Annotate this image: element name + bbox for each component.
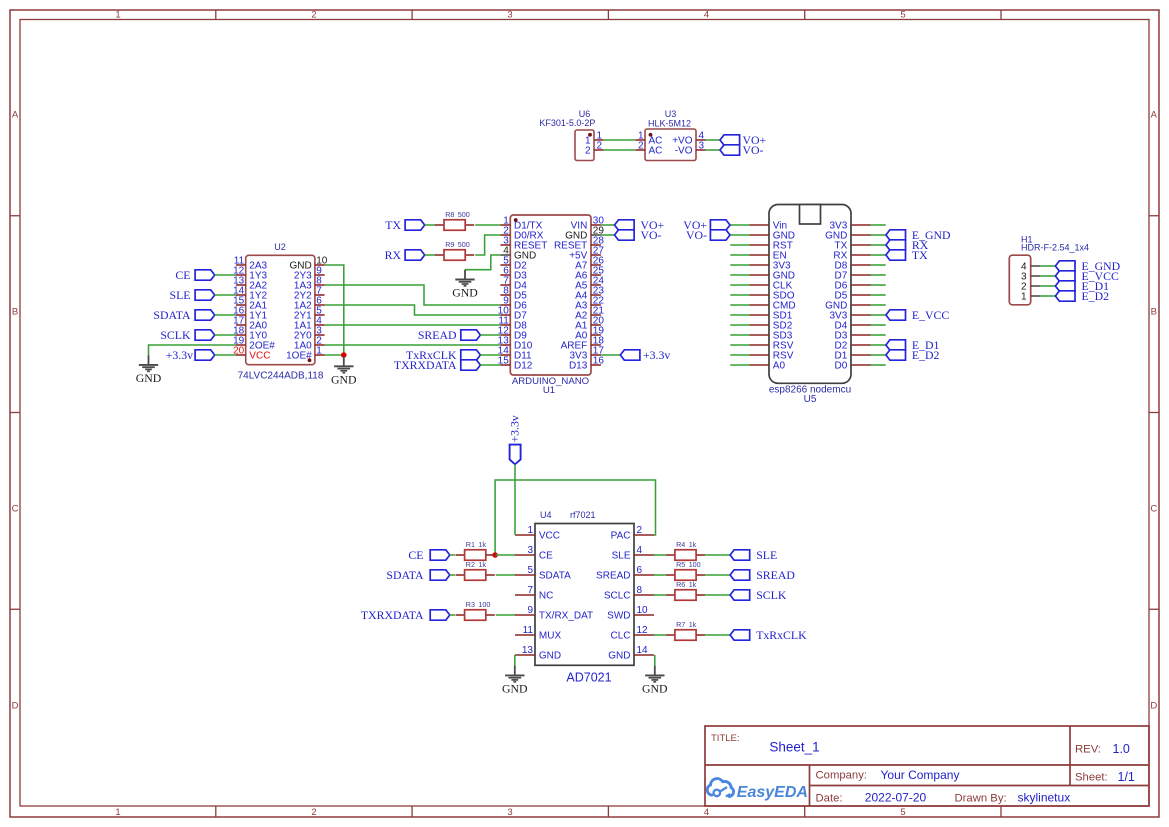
svg-text:D12: D12 [514,361,533,372]
net flag SDATA at U4 [386,568,449,582]
net flag SLE at U4 [730,548,777,562]
svg-text:SCLC: SCLC [604,591,631,602]
net flag SCLK at U4 [730,588,787,602]
svg-text:1k: 1k [478,560,486,569]
wire U4 SREAD pin 6 to R5 [654,574,666,576]
wire R4 to SLE flag [705,554,730,556]
net flag RX [385,248,425,262]
svg-text:D: D [12,700,19,711]
svg-text:Company:: Company: [816,770,868,782]
svg-text:2: 2 [585,146,591,157]
svg-text:Drawn By:: Drawn By: [955,793,1007,805]
svg-text:12: 12 [637,625,649,636]
svg-text:SDATA: SDATA [153,308,191,322]
net flag RX at U5 [886,238,929,252]
svg-text:2: 2 [637,525,643,536]
resistor R2 1k [456,560,495,580]
wire U4 SLE pin 4 to R4 [654,554,666,556]
svg-text:74LVC244ADB,118: 74LVC244ADB,118 [238,371,324,382]
net flag E_D2 at H1 [1055,289,1109,303]
net flag TX at U5 [886,248,928,262]
svg-text:SLE: SLE [756,548,777,562]
wire R7 to TxRxCLK flag [705,634,730,636]
wire SDATA flag to U2 pin 16 [215,314,236,316]
wire U5 TX to RX flag [871,244,886,246]
svg-text:E_VCC: E_VCC [912,308,949,322]
svg-text:R7: R7 [676,620,685,629]
wire SLE flag to U2 pin 14 [215,294,236,296]
svg-text:+3.3v: +3.3v [166,348,193,362]
svg-text:VO-: VO- [686,228,707,242]
wire U5 D2 to E_D1 flag [871,344,886,346]
svg-text:D: D [1150,700,1157,711]
svg-text:PAC: PAC [611,531,631,542]
svg-text:CE: CE [539,551,553,562]
svg-text:2: 2 [311,807,316,818]
wire U2 pin 10 down to ground net [325,265,344,355]
svg-text:TXRXDATA: TXRXDATA [394,358,457,372]
svg-text:R3: R3 [466,600,475,609]
wire R6 to SCLK flag [705,594,730,596]
svg-text:10: 10 [637,605,649,616]
net flag E_D2 at U5 [886,348,940,362]
svg-text:SLE: SLE [612,551,631,562]
wire R3 to U4 pin 9 [496,614,515,616]
ground symbol at U2 pin 19 [136,355,162,385]
module U5 esp8266 nodemcu [750,205,871,406]
net flag CE at U2 [175,268,214,282]
svg-text:1/1: 1/1 [1118,770,1135,784]
net flag SLE at U2 [170,288,215,302]
svg-text:1k: 1k [689,540,697,549]
svg-text:R2: R2 [466,560,475,569]
svg-text:NC: NC [539,591,553,602]
wire U3 -VO to VO- flag [706,149,721,151]
net flag SREAD at U4 [730,568,795,582]
resistor R1 1k [456,540,495,560]
net flag E_VCC at H1 [1055,269,1119,283]
svg-text:13: 13 [522,645,534,656]
net flag +3.3v at U2 [166,348,215,362]
svg-text:3: 3 [507,10,512,21]
svg-text:A: A [12,109,19,120]
net flag +3.3v at U1 [620,348,670,362]
svg-text:2: 2 [311,10,316,21]
wire R1 to U4 pin 3 [496,554,515,556]
wire U3 +VO to VO+ flag [706,139,721,141]
svg-text:1k: 1k [689,620,697,629]
svg-text:E_D2: E_D2 [1082,289,1110,303]
wire TxRxCLK flag to U1 pin 14 [480,354,500,356]
net flag TxRxCLK at U1 [406,348,480,362]
net flag VO- at U1 [615,228,662,242]
svg-text:1OE#: 1OE# [286,351,312,362]
wire +3.3v flag to U2 pin 20 [215,354,236,356]
svg-text:SCLK: SCLK [160,328,191,342]
wire CE flag to U2 pin 12 [215,274,236,276]
svg-text:5: 5 [900,807,905,818]
U5 right pin wire stubs [871,225,886,365]
IC U2 74LVC244ADB,118 octal buffer [233,242,328,382]
svg-text:16: 16 [593,356,605,367]
svg-text:A0: A0 [773,361,786,372]
wire R2 to U4 pin 5 [496,574,515,576]
resistor R7 1k [666,620,705,640]
wire U6 pin1 to U3 pin1 [604,139,636,141]
svg-text:14: 14 [637,645,649,656]
net flag E_GND at H1 [1055,259,1120,273]
net flag TXRXDATA at U1 [394,358,481,372]
svg-text:C: C [12,503,19,514]
svg-text:HDR-F-2.54_1x4: HDR-F-2.54_1x4 [1021,243,1089,253]
wire VO- flag to U5 GND [730,234,750,236]
svg-text:D0: D0 [835,361,848,372]
wire TX flag to R8 [425,224,435,226]
wire U2 pin 4 to U1 D8 [325,324,501,326]
svg-text:TITLE:: TITLE: [711,733,740,744]
wire U1 GND to VO- flag [601,234,615,236]
net flag E_D1 at U5 [886,338,940,352]
svg-text:11: 11 [523,625,534,636]
svg-text:100: 100 [689,560,701,569]
svg-text:KF301-5.0-2P: KF301-5.0-2P [539,118,595,128]
svg-text:8: 8 [637,585,643,596]
svg-text:500: 500 [458,210,470,219]
net flag SREAD at U1 [418,328,481,342]
svg-text:R4: R4 [676,540,685,549]
svg-text:+3.3v: +3.3v [643,348,670,362]
svg-text:B: B [1151,306,1157,317]
wire U2 pin 19 to ground [149,345,237,355]
resistor R6 1k [666,580,705,600]
svg-text:GND: GND [608,651,630,662]
wire U5 RX to TX flag [871,254,886,256]
svg-text:GND: GND [452,286,478,300]
svg-text:1: 1 [115,807,120,818]
net flag E_D1 at H1 [1055,279,1109,293]
wire SDATA flag to R2 [450,574,455,576]
wire U1 VIN to VO+ flag [601,224,615,226]
wire SREAD flag to U1 pin 12 [480,334,500,336]
net flag SDATA at U2 [153,308,214,322]
svg-text:AD7021: AD7021 [566,671,611,685]
ground symbol at U4 pin 14 [642,666,668,696]
wire U2 pin 1 to ground net [325,354,344,356]
svg-text:4: 4 [704,10,709,21]
svg-text:HLK-5M12: HLK-5M12 [648,119,691,129]
wire U4 pin 14 GND to ground [654,655,656,666]
wire U2 pin 6 to U1 D7 [325,305,501,315]
svg-text:Date:: Date: [816,793,843,805]
svg-text:4: 4 [637,545,643,556]
wire U4 CLC pin 12 to R7 [654,634,666,636]
svg-text:SREAD: SREAD [418,328,457,342]
wire R5 to SREAD flag [705,574,730,576]
svg-text:3: 3 [699,140,705,151]
net flag VO+ at U5 [683,218,730,232]
net flag TXRXDATA at U4 [361,608,450,622]
svg-text:GND: GND [331,372,357,386]
IC U1 ARDUINO_NANO [498,215,605,396]
svg-text:SREAD: SREAD [756,568,795,582]
svg-text:1: 1 [1021,292,1027,303]
svg-text:SWD: SWD [607,611,630,622]
wire TXRXDATA flag to U1 pin 15 [480,364,500,366]
svg-text:3: 3 [507,807,512,818]
svg-text:3: 3 [527,545,533,556]
wire SCLK flag to U2 pin 18 [215,334,236,336]
svg-text:VCC: VCC [539,531,560,542]
svg-text:R6: R6 [676,580,685,589]
wire U6 pin2 to U3 pin2 [604,149,636,151]
svg-text:1k: 1k [689,580,697,589]
svg-text:5: 5 [527,565,533,576]
svg-text:CE: CE [408,548,423,562]
IC U4 AD7021 (rf7021) [515,510,654,685]
svg-text:TxRxCLK: TxRxCLK [756,628,807,642]
svg-text:SCLK: SCLK [756,588,787,602]
svg-text:2: 2 [638,140,644,151]
net flag VO+ at U3 [720,133,767,147]
svg-text:R9: R9 [445,240,454,249]
wire U2 pin 8 to U1 D6 [325,285,501,305]
svg-text:1: 1 [527,525,533,536]
ground symbol at U4 pin 13 [502,666,528,696]
svg-text:2022-07-20: 2022-07-20 [865,791,927,805]
svg-text:1.0: 1.0 [1113,742,1130,756]
wire U1 3V3 to +3.3v flag [601,354,620,356]
svg-text:RX: RX [385,248,402,262]
net flag TxRxCLK at U4 [730,628,807,642]
wire U5 GND to E_GND flag [871,234,886,236]
resistor R9 500 [435,240,474,260]
net flag TX [385,218,424,232]
wire CE flag to R1 [450,554,455,556]
wire TXRXDATA flag to R3 [450,614,455,616]
svg-text:R1: R1 [466,540,475,549]
wire U5 D1 to E_D2 flag [871,354,886,356]
svg-text:GND: GND [502,681,528,695]
svg-text:VO-: VO- [641,228,662,242]
wire U2 pin 2 to U1 D10 [325,344,501,346]
svg-text:TX/RX_DAT: TX/RX_DAT [539,611,593,622]
svg-text:Sheet_1: Sheet_1 [769,740,819,755]
svg-text:GND: GND [136,371,162,385]
title block [705,726,1149,806]
svg-text:6: 6 [637,565,643,576]
svg-text:AC: AC [649,146,663,157]
svg-text:U5: U5 [804,394,817,405]
svg-text:VCC: VCC [249,351,270,362]
wire VO+ flag to U5 Vin [730,224,750,226]
net flag +3.3v above U4 [507,415,521,464]
wire U5 3V3 to E_VCC flag [871,314,886,316]
svg-text:rf7021: rf7021 [570,510,596,520]
net flag CE at U4 [408,548,449,562]
resistor R5 100 [666,560,705,580]
svg-text:SDATA: SDATA [539,571,571,582]
svg-text:+3.3v: +3.3v [507,415,521,442]
svg-text:skylinetux: skylinetux [1018,791,1071,805]
svg-text:SLE: SLE [170,288,191,302]
wire U1 pin 4 GND to ground [465,255,500,270]
net flag VO- at U3 [720,143,764,157]
U5 left pin wire stubs [730,245,749,365]
svg-text:U4: U4 [540,510,552,520]
svg-text:B: B [12,306,18,317]
svg-text:SDATA: SDATA [386,568,424,582]
wire R9 to U1 pin 2 [475,235,500,255]
svg-text:E_D2: E_D2 [912,348,940,362]
svg-text:500: 500 [458,240,470,249]
junction at U2 ground net [341,352,347,358]
ground symbol at U2 pin 1 [331,357,357,387]
svg-text:TX: TX [385,218,401,232]
svg-text:CE: CE [175,268,190,282]
svg-text:7: 7 [527,585,533,596]
net flag VO- at U5 [686,228,730,242]
resistor R4 1k [666,540,705,560]
wire U4 SCLC pin 8 to R6 [654,594,666,596]
net flag VO+ at U1 [615,218,665,232]
svg-text:GND: GND [642,681,668,695]
svg-text:R5: R5 [676,560,685,569]
svg-text:SREAD: SREAD [596,571,630,582]
wire CE net to PAC pin 2 upper run [495,480,655,555]
resistor R3 100 [456,600,495,620]
svg-text:R8: R8 [445,210,454,219]
svg-text:TX: TX [912,248,928,262]
svg-text:9: 9 [527,605,533,616]
wire +3.3v flag to U4 VCC pin 1 [514,464,516,535]
svg-text:U2: U2 [274,242,286,252]
net flag SCLK at U2 [160,328,214,342]
svg-text:D13: D13 [569,361,588,372]
svg-text:REV:: REV: [1075,743,1101,755]
net flag E_VCC at U5 [886,308,949,322]
svg-text:5: 5 [900,10,905,21]
svg-text:A: A [1151,109,1158,120]
connector U6 KF301-5.0-2P [539,109,603,161]
svg-text:U3: U3 [665,109,677,119]
EasyEDA logo [707,779,808,801]
resistor R8 500 [435,210,474,230]
connector H1 HDR-F-2.54_1x4 [1009,235,1089,305]
H1 pin wires to flags [1040,266,1055,296]
wire RX flag to R9 [425,254,435,256]
svg-text:Your Company: Your Company [881,768,960,782]
svg-text:C: C [1150,503,1157,514]
svg-text:CLC: CLC [610,631,630,642]
junction at R1 output CE net [492,552,498,558]
svg-text:Sheet:: Sheet: [1075,772,1108,784]
svg-text:GND: GND [539,651,561,662]
ground symbol at U1 pin 4 [452,270,478,300]
wire U4 pin 13 GND to ground [514,655,516,666]
svg-text:1k: 1k [478,540,486,549]
svg-text:MUX: MUX [539,631,562,642]
svg-text:VO-: VO- [743,143,764,157]
wire R8 to U1 pin 1 [475,224,500,226]
svg-text:100: 100 [478,600,490,609]
net flag E_GND at U5 [886,228,951,242]
svg-text:4: 4 [704,807,709,818]
svg-text:1: 1 [316,346,322,357]
svg-text:U1: U1 [543,385,555,396]
svg-text:1: 1 [115,10,120,21]
power module U3 HLK-5M12 [635,109,705,161]
svg-text:TXRXDATA: TXRXDATA [361,608,424,622]
svg-text:EasyEDA: EasyEDA [737,784,808,801]
svg-text:-VO: -VO [675,146,693,157]
